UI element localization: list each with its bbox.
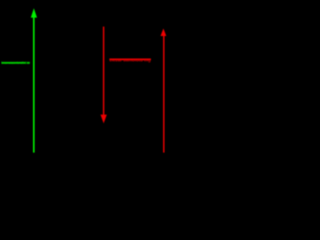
red force vector F2 (down arrow, middle) xyxy=(101,27,107,124)
green label for F1 xyxy=(1,60,30,65)
svg-text:t.wznoszenia silnika: t.wznoszenia silnika xyxy=(1,60,30,65)
svg-text:ciezar samolotu mg: ciezar samolotu mg xyxy=(109,57,151,62)
red label for F2 xyxy=(109,57,151,62)
green force vector F1 (up arrow, left) xyxy=(31,8,37,152)
red force vector F3 (up arrow, right) xyxy=(161,29,167,153)
